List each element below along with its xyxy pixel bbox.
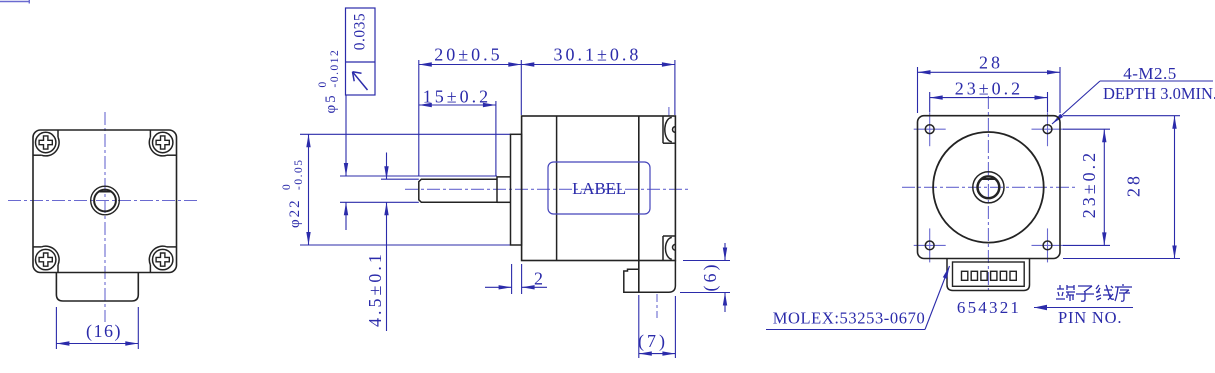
svg-text:4-M2.5: 4-M2.5 — [1123, 64, 1177, 83]
svg-text:30.1±0.8: 30.1±0.8 — [554, 45, 642, 65]
svg-text:15±0.2: 15±0.2 — [423, 87, 491, 107]
svg-text:(6): (6) — [700, 262, 721, 292]
svg-text:2: 2 — [534, 269, 546, 289]
svg-text:23±0.2: 23±0.2 — [1079, 150, 1099, 218]
svg-text:-0.012: -0.012 — [329, 49, 341, 88]
svg-text:4.5±0.1: 4.5±0.1 — [365, 251, 385, 327]
svg-text:MOLEX:53253-0670: MOLEX:53253-0670 — [773, 309, 926, 328]
svg-text:0: 0 — [281, 183, 293, 190]
svg-text:20±0.5: 20±0.5 — [434, 45, 502, 65]
svg-text:PIN NO.: PIN NO. — [1058, 308, 1122, 327]
svg-text:φ22: φ22 — [287, 198, 303, 228]
svg-text:DEPTH 3.0MIN.: DEPTH 3.0MIN. — [1103, 84, 1215, 103]
svg-text:28: 28 — [979, 53, 1003, 73]
svg-text:23±0.2: 23±0.2 — [955, 79, 1023, 99]
svg-text:0: 0 — [317, 80, 329, 87]
svg-text:654321: 654321 — [957, 298, 1021, 317]
svg-text:LABEL: LABEL — [572, 179, 626, 198]
svg-text:φ5: φ5 — [323, 93, 339, 113]
svg-text:-0.05: -0.05 — [293, 159, 305, 190]
svg-text:28: 28 — [1124, 173, 1144, 197]
svg-text:0.035: 0.035 — [352, 13, 369, 50]
svg-text:(16): (16) — [86, 321, 122, 342]
svg-text:(7): (7) — [638, 331, 668, 352]
